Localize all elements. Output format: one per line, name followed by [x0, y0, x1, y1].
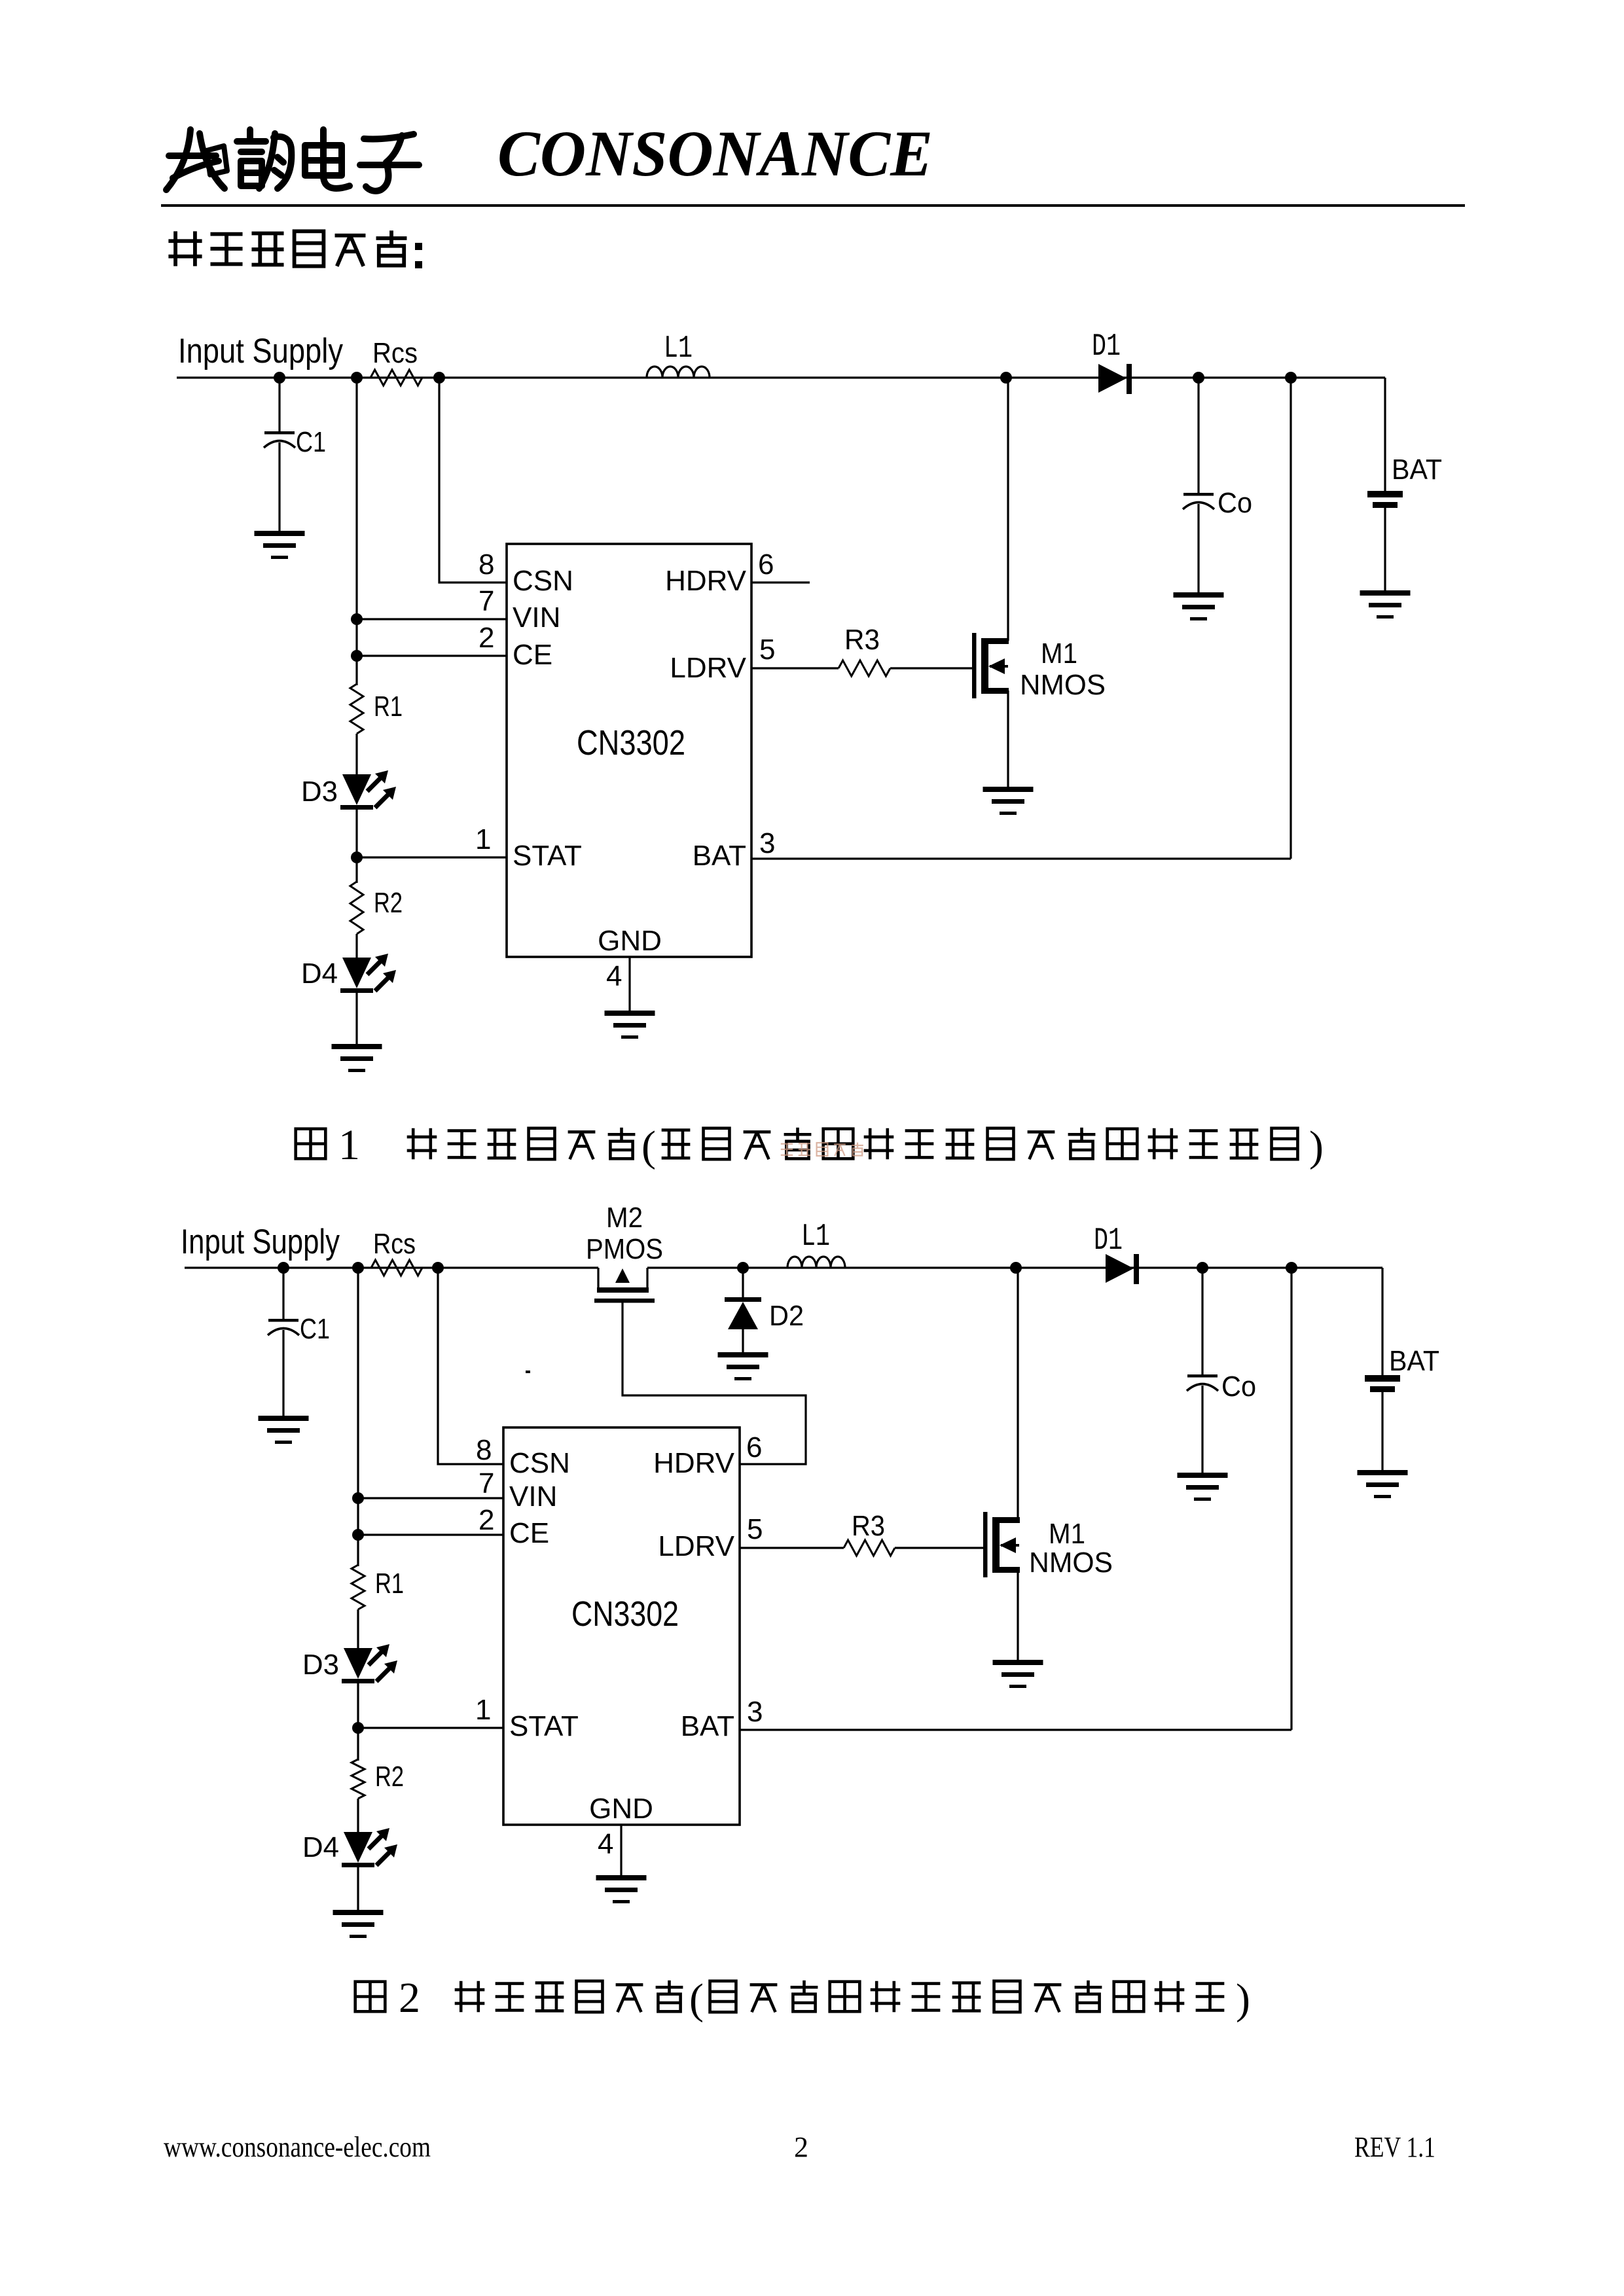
svg-text:BAT: BAT	[1389, 1345, 1439, 1377]
fig1 resistor R1	[350, 684, 363, 734]
fig1 wire R2 to D4	[355, 934, 357, 959]
fig2 wire R3 to M1 gate	[895, 1547, 983, 1549]
fig1 wire VIN to pin7	[357, 618, 507, 620]
svg-text:VIN: VIN	[513, 601, 560, 634]
fig2 ground under M1	[993, 1660, 1043, 1688]
fig2 ground under BAT	[1358, 1470, 1408, 1498]
svg-text:8: 8	[476, 1434, 492, 1466]
fig1 node C1 tap	[274, 372, 285, 384]
svg-text:(: (	[641, 1122, 656, 1170]
fig2 battery BAT	[1381, 1268, 1383, 1375]
svg-text:NMOS: NMOS	[1020, 669, 1106, 701]
svg-text:Input Supply: Input Supply	[181, 1223, 340, 1261]
svg-text:CN3302: CN3302	[577, 723, 685, 762]
fig1 wire CSN branch	[439, 378, 507, 583]
svg-text:D3: D3	[301, 776, 338, 808]
svg-text:D4: D4	[302, 1831, 339, 1863]
fig2 resistor R3	[844, 1540, 895, 1556]
svg-text:(: (	[689, 1975, 704, 2023]
fig2 capacitor C1	[282, 1268, 284, 1319]
svg-text:Rcs: Rcs	[373, 1228, 416, 1260]
fig1 node VIN	[351, 613, 363, 625]
fig1 wire D4 to ground	[355, 988, 357, 1045]
fig1 wire D3 to STAT node	[355, 805, 357, 883]
svg-text:HDRV: HDRV	[665, 565, 747, 597]
fig1 node M1 drain	[1000, 372, 1012, 384]
header rule	[161, 204, 1465, 207]
heading 典型应用电路：	[168, 231, 202, 266]
fig1 wire M1 drain to top wire	[1007, 378, 1009, 641]
svg-text:R1: R1	[375, 1568, 404, 1600]
fig2 node VIN	[352, 1492, 364, 1504]
fig2 wire D3 to STAT node	[357, 1679, 359, 1761]
svg-text:L1: L1	[664, 331, 693, 367]
svg-text:5: 5	[747, 1513, 763, 1545]
svg-text:CE: CE	[509, 1517, 549, 1549]
fig1 ground under C1	[255, 531, 305, 559]
fig1 wire M1 source to ground	[1007, 691, 1009, 788]
svg-text:1: 1	[475, 1694, 491, 1726]
fig2 wire CSN branch	[438, 1268, 503, 1464]
caption fig1 图1 典型应用电路(不考虑电池电压过低或电池短路保护)	[296, 1129, 326, 1159]
svg-text:R3: R3	[852, 1510, 885, 1542]
svg-text:D2: D2	[769, 1300, 804, 1332]
fig2 node D2 tap	[737, 1262, 749, 1274]
svg-text:www.consonance-elec.com: www.consonance-elec.com	[164, 2131, 431, 2163]
fig1 IC U1 CN3302 box	[507, 544, 751, 957]
fig2 node BAT branch	[1286, 1262, 1297, 1274]
svg-text:STAT: STAT	[509, 1710, 579, 1742]
fig1 capacitor Co	[1197, 378, 1199, 493]
fig1 transistor M1 NMOS	[972, 633, 1009, 698]
svg-text:M2: M2	[606, 1202, 643, 1234]
fig2 diode D1	[1106, 1254, 1139, 1284]
svg-text:7: 7	[478, 585, 494, 617]
fig2 ground under C1	[259, 1416, 309, 1444]
fig2 ground under Co	[1178, 1473, 1228, 1501]
svg-text:NMOS: NMOS	[1029, 1547, 1113, 1579]
svg-text:GND: GND	[598, 925, 662, 957]
svg-text:Input Supply: Input Supply	[178, 332, 343, 370]
fig2 capacitor Co	[1201, 1268, 1203, 1375]
fig2 ground under D4	[333, 1910, 384, 1938]
svg-text:CN3302: CN3302	[571, 1594, 679, 1634]
fig2 wire GND pin to ground	[620, 1825, 622, 1876]
fig2 wire VIN/CE branch vertical	[357, 1268, 359, 1566]
svg-text:CE: CE	[513, 639, 552, 671]
fig1 ground under Co	[1174, 592, 1224, 620]
fig2 node Rcs right / CSN tap	[432, 1262, 444, 1274]
fig1 ground under BAT	[1360, 590, 1411, 619]
watermark 芯片模块网	[781, 1143, 863, 1156]
fig1 wire STAT to pin1	[357, 856, 507, 858]
fig2 node CE	[352, 1529, 364, 1541]
fig2 LED D4	[342, 1828, 397, 1867]
fig1 LED D3	[340, 770, 396, 810]
fig2 node M1 drain	[1010, 1262, 1022, 1274]
fig1 resistor Rcs	[370, 370, 422, 386]
fig1 LED D4	[340, 954, 396, 993]
fig2 wire BAT pin3 vertical	[1290, 1268, 1292, 1730]
fig1 inductor L1	[647, 367, 710, 378]
fig2 wire M1 drain to top wire	[1017, 1268, 1019, 1520]
svg-text:CSN: CSN	[513, 565, 573, 597]
svg-text:6: 6	[746, 1431, 762, 1463]
fig2 node C1 tap	[278, 1262, 289, 1274]
svg-text:C1: C1	[296, 426, 326, 458]
fig2 resistor R2	[352, 1759, 365, 1799]
fig2 wire R1 to D3	[357, 1609, 359, 1649]
fig2 top wire right segment	[647, 1266, 1382, 1268]
svg-text:R3: R3	[844, 624, 880, 656]
svg-text:3: 3	[759, 827, 775, 859]
svg-text:D1: D1	[1094, 1223, 1123, 1259]
fig2 diode D2	[742, 1268, 744, 1299]
caption fig2 图2 典型应用电路(电池电压过低或电池短路保护)	[355, 1982, 386, 2012]
svg-text:5: 5	[759, 634, 775, 666]
svg-text:Co: Co	[1221, 1371, 1256, 1403]
fig1 top wire	[177, 376, 1385, 378]
fig2 resistor Rcs	[371, 1260, 422, 1276]
fig2 IC U1 CN3302 box	[503, 1427, 740, 1825]
fig1 resistor R2	[350, 882, 363, 934]
fig1 capacitor C1	[278, 378, 280, 432]
fig1 node Rcs left	[351, 372, 363, 384]
svg-text:BAT: BAT	[1392, 454, 1442, 486]
svg-text:2: 2	[478, 1504, 494, 1536]
fig1 resistor R3	[839, 660, 890, 676]
fig2 LED D3	[342, 1644, 397, 1683]
svg-text:REV 1.1: REV 1.1	[1354, 2131, 1435, 2163]
svg-text:8: 8	[478, 548, 494, 581]
fig1 wire BAT pin3 vertical	[1290, 378, 1291, 859]
svg-text:4: 4	[598, 1828, 613, 1860]
fig2 transistor M2 PMOS	[594, 1268, 655, 1303]
fig1 diode D1	[1098, 364, 1132, 394]
fig1 ground under GND pin	[605, 1011, 655, 1039]
fig2 transistor M1 NMOS	[983, 1512, 1020, 1577]
svg-text:C1: C1	[300, 1313, 330, 1345]
svg-text:R1: R1	[374, 691, 403, 723]
svg-text:R2: R2	[375, 1761, 404, 1793]
svg-text:M1: M1	[1049, 1518, 1085, 1550]
fig2 wire M1 source to ground	[1017, 1570, 1019, 1661]
fig1 wire HDRV stub	[751, 581, 810, 583]
svg-text:CONSONANCE: CONSONANCE	[497, 117, 933, 190]
fig1 wire BAT pin3 horizontal	[751, 857, 1291, 859]
svg-text:D1: D1	[1092, 329, 1121, 365]
fig1 node Co tap	[1193, 372, 1204, 384]
fig2 wire STAT to pin1	[358, 1727, 503, 1729]
svg-text:GND: GND	[589, 1793, 653, 1825]
svg-text:HDRV: HDRV	[653, 1447, 735, 1479]
fig2 wire LDRV to R3	[740, 1547, 844, 1549]
svg-text:1: 1	[475, 823, 491, 855]
svg-text:7: 7	[478, 1467, 494, 1499]
fig1 battery BAT	[1384, 378, 1386, 491]
fig1 wire VIN/CE branch vertical	[355, 378, 357, 685]
fig2 resistor R1	[352, 1565, 365, 1609]
svg-text:3: 3	[747, 1696, 763, 1728]
svg-text:CSN: CSN	[509, 1447, 570, 1479]
fig2 top wire left segment	[185, 1266, 598, 1268]
svg-text:R2: R2	[374, 887, 403, 919]
fig1 wire R3 to M1 gate	[890, 667, 972, 669]
fig2 wire M2 gate to HDRV	[623, 1302, 806, 1464]
fig2 wire D4 to ground	[357, 1863, 359, 1911]
svg-text:Rcs: Rcs	[372, 337, 418, 369]
svg-text:PMOS: PMOS	[586, 1233, 663, 1265]
fig2 wire BAT pin3 horizontal	[740, 1729, 1291, 1731]
fig1 ground under M1	[983, 787, 1034, 815]
fig2 ground under GND pin	[596, 1875, 647, 1903]
fig2 stray mark	[526, 1371, 530, 1373]
svg-text:2: 2	[478, 622, 494, 654]
fig2 node STAT	[352, 1722, 364, 1734]
fig2 node Rcs left	[352, 1262, 364, 1274]
svg-text:Co: Co	[1218, 487, 1252, 519]
fig1 wire GND pin to ground	[628, 957, 630, 1012]
svg-text:M1: M1	[1041, 637, 1077, 670]
svg-text:4: 4	[606, 960, 622, 992]
fig2 inductor L1	[787, 1257, 845, 1268]
svg-text:LDRV: LDRV	[658, 1530, 734, 1562]
svg-text:BAT: BAT	[681, 1710, 734, 1742]
svg-text:L1: L1	[801, 1219, 830, 1255]
fig1 node Rcs right / CSN tap	[433, 372, 445, 384]
svg-text:1: 1	[338, 1121, 360, 1169]
fig2 node Co tap	[1197, 1262, 1208, 1274]
fig2 ground under D2	[718, 1352, 768, 1380]
svg-text:D4: D4	[301, 958, 338, 990]
fig1 wire CE to pin2	[357, 655, 507, 656]
svg-text:2: 2	[794, 2131, 808, 2163]
logo 如韵电子 (calligraphic company name)	[166, 130, 419, 191]
svg-text:): )	[1236, 1975, 1250, 2023]
fig2 wire CE to pin2	[358, 1534, 503, 1535]
fig2 wire R2 to D4	[357, 1799, 359, 1833]
fig1 node BAT branch	[1285, 372, 1297, 384]
svg-text:6: 6	[758, 548, 774, 581]
svg-text:2: 2	[399, 1974, 420, 2022]
svg-text:STAT: STAT	[513, 840, 582, 872]
fig2 wire VIN to pin7	[358, 1497, 503, 1499]
svg-text:VIN: VIN	[509, 1480, 557, 1513]
fig1 ground under D4	[332, 1044, 382, 1072]
svg-text:BAT: BAT	[693, 840, 746, 872]
svg-text:): )	[1309, 1122, 1324, 1170]
svg-text:LDRV: LDRV	[670, 652, 746, 684]
fig1 node STAT	[351, 852, 363, 863]
fig1 node CE	[351, 650, 363, 662]
fig1 wire R1 to D3	[355, 734, 357, 776]
fig1 wire LDRV to R3	[751, 667, 839, 669]
svg-text:D3: D3	[302, 1649, 339, 1681]
